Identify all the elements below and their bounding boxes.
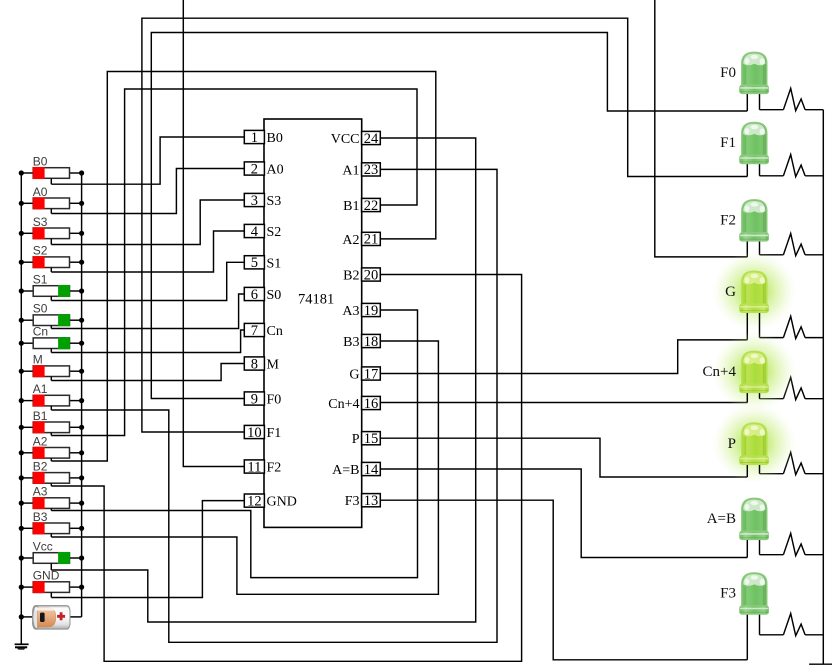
wire left ground bus [20, 173, 22, 643]
svg-text:16: 16 [364, 396, 379, 412]
svg-text:P: P [728, 436, 736, 452]
wire net Cn+4: pin 16 to LED Cn+4 [380, 402, 747, 404]
svg-text:Cn+4: Cn+4 [328, 397, 359, 412]
LED A=B [740, 498, 769, 557]
wire net B1: switch B1 to pin 22 [51, 89, 417, 436]
pin 11 (F2) box and labels [244, 459, 281, 475]
svg-text:B0: B0 [33, 155, 48, 169]
svg-text:3: 3 [251, 193, 258, 209]
svg-text:22: 22 [364, 198, 379, 214]
wire LED F0 to resistor [760, 109, 784, 111]
LED Cn+4 [712, 331, 796, 411]
svg-text:B2: B2 [343, 269, 359, 284]
svg-text:F1: F1 [720, 135, 736, 151]
svg-text:F3: F3 [720, 586, 736, 602]
svg-text:6: 6 [251, 287, 258, 303]
pin 24 (VCC) box and labels [331, 131, 381, 147]
wire net S3: switch S3 to pin 3 [51, 200, 244, 245]
svg-text:5: 5 [251, 255, 258, 271]
svg-text:1: 1 [251, 130, 258, 146]
svg-text:VCC: VCC [331, 132, 360, 147]
svg-text:S0: S0 [267, 288, 282, 303]
svg-text:S2: S2 [33, 244, 48, 258]
LED P [712, 403, 796, 483]
pin 14 (A=B) box and labels [332, 462, 380, 478]
svg-text:B3: B3 [33, 510, 48, 524]
wire net P: pin 15 to LED P [380, 438, 747, 477]
wire net B0: switch B0 to pin 1 [51, 137, 244, 184]
svg-text:F1: F1 [267, 426, 282, 441]
svg-text:A1: A1 [342, 163, 359, 178]
battery BT1 [19, 606, 82, 630]
svg-text:18: 18 [364, 334, 379, 350]
svg-text:13: 13 [364, 493, 379, 509]
pin 21 (A2) box and labels [342, 232, 380, 248]
wire net A=B: pin 14 to LED A=B [380, 469, 747, 558]
wire net A3: switch A3 to pin 19 [51, 310, 417, 578]
svg-text:F2: F2 [267, 461, 282, 476]
wire +V rail [81, 173, 83, 617]
svg-text:G: G [349, 368, 359, 383]
wire bus exit bottom right [809, 663, 832, 665]
svg-text:14: 14 [364, 462, 379, 478]
svg-text:A0: A0 [267, 163, 284, 178]
switch B0 [19, 155, 85, 185]
svg-text:GND: GND [33, 569, 60, 583]
svg-text:F3: F3 [345, 494, 360, 509]
resistor R-P [783, 452, 805, 474]
wire resistor R-A=B to bus [805, 554, 823, 556]
LED F1 [740, 122, 769, 176]
svg-text:B0: B0 [267, 131, 283, 146]
wire net F2b: re-entry from top of canvas to LED F2 [655, 0, 748, 257]
wire net B3: switch B3 to pin 18 [51, 341, 438, 594]
svg-text:A2: A2 [33, 434, 48, 448]
svg-text:24: 24 [364, 131, 379, 147]
svg-text:A=B: A=B [707, 511, 736, 527]
switch Vcc [19, 540, 85, 571]
wire resistor R-F1 to bus [805, 175, 823, 177]
svg-text:12: 12 [247, 493, 262, 509]
switch A2 [19, 434, 85, 461]
pin 6 (S0) box and labels [244, 287, 281, 303]
svg-text:74181: 74181 [298, 292, 334, 308]
svg-text:S3: S3 [33, 215, 48, 229]
svg-text:15: 15 [364, 431, 379, 447]
svg-text:B1: B1 [343, 199, 359, 214]
LED G [712, 251, 796, 340]
wire net GND: switch GND to pin 12 [51, 501, 244, 598]
svg-text:2: 2 [251, 161, 258, 177]
svg-text:G: G [725, 284, 736, 300]
pin 3 (S3) box and labels [244, 193, 281, 209]
wire net G: pin 17 to LED G [380, 340, 747, 374]
wire net S2: switch S2 to pin 4 [51, 231, 244, 272]
wire LED F1 to resistor [760, 175, 784, 177]
svg-text:21: 21 [364, 232, 379, 248]
svg-text:GND: GND [267, 495, 297, 510]
wire resistor R-F0 to bus [805, 109, 823, 111]
svg-text:23: 23 [364, 162, 379, 178]
switch A1 [19, 382, 85, 410]
resistor R-Cn+4 [783, 377, 805, 399]
svg-text:Cn: Cn [33, 325, 48, 339]
svg-text:A3: A3 [33, 485, 48, 499]
LED F2 [740, 200, 769, 257]
wire net F1: pin 10 to LED F1 [142, 18, 747, 432]
switch S3 [19, 215, 85, 245]
svg-text:M: M [33, 353, 43, 367]
wire right resistor bus [822, 110, 824, 665]
svg-text:P: P [352, 432, 360, 447]
wire LED P to resistor [760, 473, 784, 475]
pin 5 (S1) box and labels [244, 255, 281, 271]
wire net Vcc: switch Vcc to pin 24 [51, 138, 475, 622]
resistor R-F3 [783, 614, 805, 636]
switch B2 [19, 459, 85, 486]
svg-text:F2: F2 [720, 213, 736, 229]
svg-text:11: 11 [247, 459, 261, 475]
pin 10 (F1) box and labels [244, 425, 281, 441]
wire net F0: pin 9 to LED F0 [151, 33, 747, 399]
wire resistor R-F2 to bus [805, 254, 823, 256]
switch S0 [19, 302, 85, 329]
wire resistor R-Cn+4 to bus [805, 398, 823, 400]
svg-text:S1: S1 [33, 273, 48, 287]
svg-text:F0: F0 [267, 393, 282, 408]
svg-text:B3: B3 [343, 335, 359, 350]
svg-text:19: 19 [364, 303, 379, 319]
pin 16 (Cn+4) box and labels [328, 396, 380, 412]
wire resistor R-P to bus [805, 473, 823, 475]
pin 8 (M) box and labels [244, 356, 279, 372]
svg-text:A=B: A=B [332, 463, 359, 478]
wire net F3: pin 13 to LED F3 [380, 500, 747, 660]
svg-text:Vcc: Vcc [33, 540, 53, 554]
wire net Cn: switch Cn to pin 7 [51, 330, 244, 353]
pin 15 (P) box and labels [352, 431, 381, 447]
wire net A2: switch A2 to pin 21 [51, 72, 436, 462]
resistor R-F2 [783, 234, 805, 256]
pin 7 (Cn) box and labels [244, 323, 283, 339]
pin 19 (A3) box and labels [342, 303, 380, 319]
LED F3 [740, 573, 769, 660]
wire resistor R-F3 to bus [805, 634, 823, 636]
wire LED Cn+4 to resistor [760, 398, 784, 400]
wire net B2: switch B2 to pin 20 [51, 275, 521, 662]
svg-text:F0: F0 [720, 65, 736, 81]
switch S1 [19, 273, 85, 301]
svg-text:B2: B2 [33, 459, 48, 473]
switch S2 [19, 244, 85, 272]
svg-text:10: 10 [247, 425, 262, 441]
svg-text:4: 4 [251, 224, 259, 240]
switch Cn [19, 325, 85, 353]
resistor R-A=B [783, 533, 805, 555]
svg-text:A0: A0 [33, 185, 48, 199]
svg-text:S1: S1 [267, 256, 282, 271]
svg-text:A2: A2 [342, 233, 359, 248]
switch A0 [19, 185, 85, 214]
switch M [19, 353, 85, 381]
resistor R-F1 [783, 155, 805, 177]
svg-text:M: M [267, 358, 280, 373]
svg-text:A3: A3 [342, 304, 359, 319]
pin 4 (S2) box and labels [244, 224, 281, 240]
pin 13 (F3) box and labels [345, 493, 381, 509]
svg-text:S2: S2 [267, 225, 282, 240]
pin 9 (F0) box and labels [244, 391, 281, 407]
pin 2 (A0) box and labels [244, 161, 283, 177]
wire net F2a: pin 11 riser exiting top of canvas [183, 0, 244, 467]
svg-text:17: 17 [364, 366, 379, 382]
svg-text:Cn+4: Cn+4 [703, 364, 737, 380]
wire resistor R-G to bus [805, 337, 823, 339]
resistor R-G [783, 316, 805, 338]
pin 23 (A1) box and labels [342, 162, 380, 178]
LED F0 [740, 52, 769, 111]
svg-text:A1: A1 [33, 382, 48, 396]
pin 18 (B3) box and labels [343, 334, 380, 350]
switch A3 [19, 485, 85, 511]
wire LED A=B to resistor [760, 554, 784, 556]
wire net M: switch M to pin 8 [51, 364, 244, 381]
wire net A0: switch A0 to pin 2 [51, 169, 244, 214]
op-amp: IC U1 74181 body [264, 119, 362, 527]
svg-text:20: 20 [364, 267, 379, 283]
switch B1 [19, 409, 85, 436]
ground [15, 643, 29, 650]
pin 17 (G) box and labels [349, 366, 380, 382]
wire LED F2 to resistor [760, 254, 784, 256]
svg-text:S3: S3 [267, 194, 282, 209]
wire LED F3 to resistor [760, 634, 784, 636]
switch B3 [19, 510, 85, 537]
svg-text:B1: B1 [33, 409, 48, 423]
svg-text:S0: S0 [33, 302, 48, 316]
wire net S0: switch S0 to pin 6 [51, 294, 244, 329]
svg-text:7: 7 [251, 323, 258, 339]
pin 1 (B0) box and labels [244, 130, 283, 146]
wire LED G to resistor [760, 337, 784, 339]
svg-text:8: 8 [251, 356, 258, 372]
switch GND [19, 569, 85, 598]
pin 12 (GND) box and labels [244, 493, 297, 509]
pin 20 (B2) box and labels [343, 267, 380, 283]
wire net S1: switch S1 to pin 5 [51, 262, 244, 300]
svg-text:9: 9 [251, 391, 258, 407]
wire net A1: switch A1 to pin 23 [51, 169, 497, 642]
pin 22 (B1) box and labels [343, 198, 380, 214]
resistor R-F0 [783, 88, 805, 110]
svg-text:Cn: Cn [267, 324, 283, 339]
